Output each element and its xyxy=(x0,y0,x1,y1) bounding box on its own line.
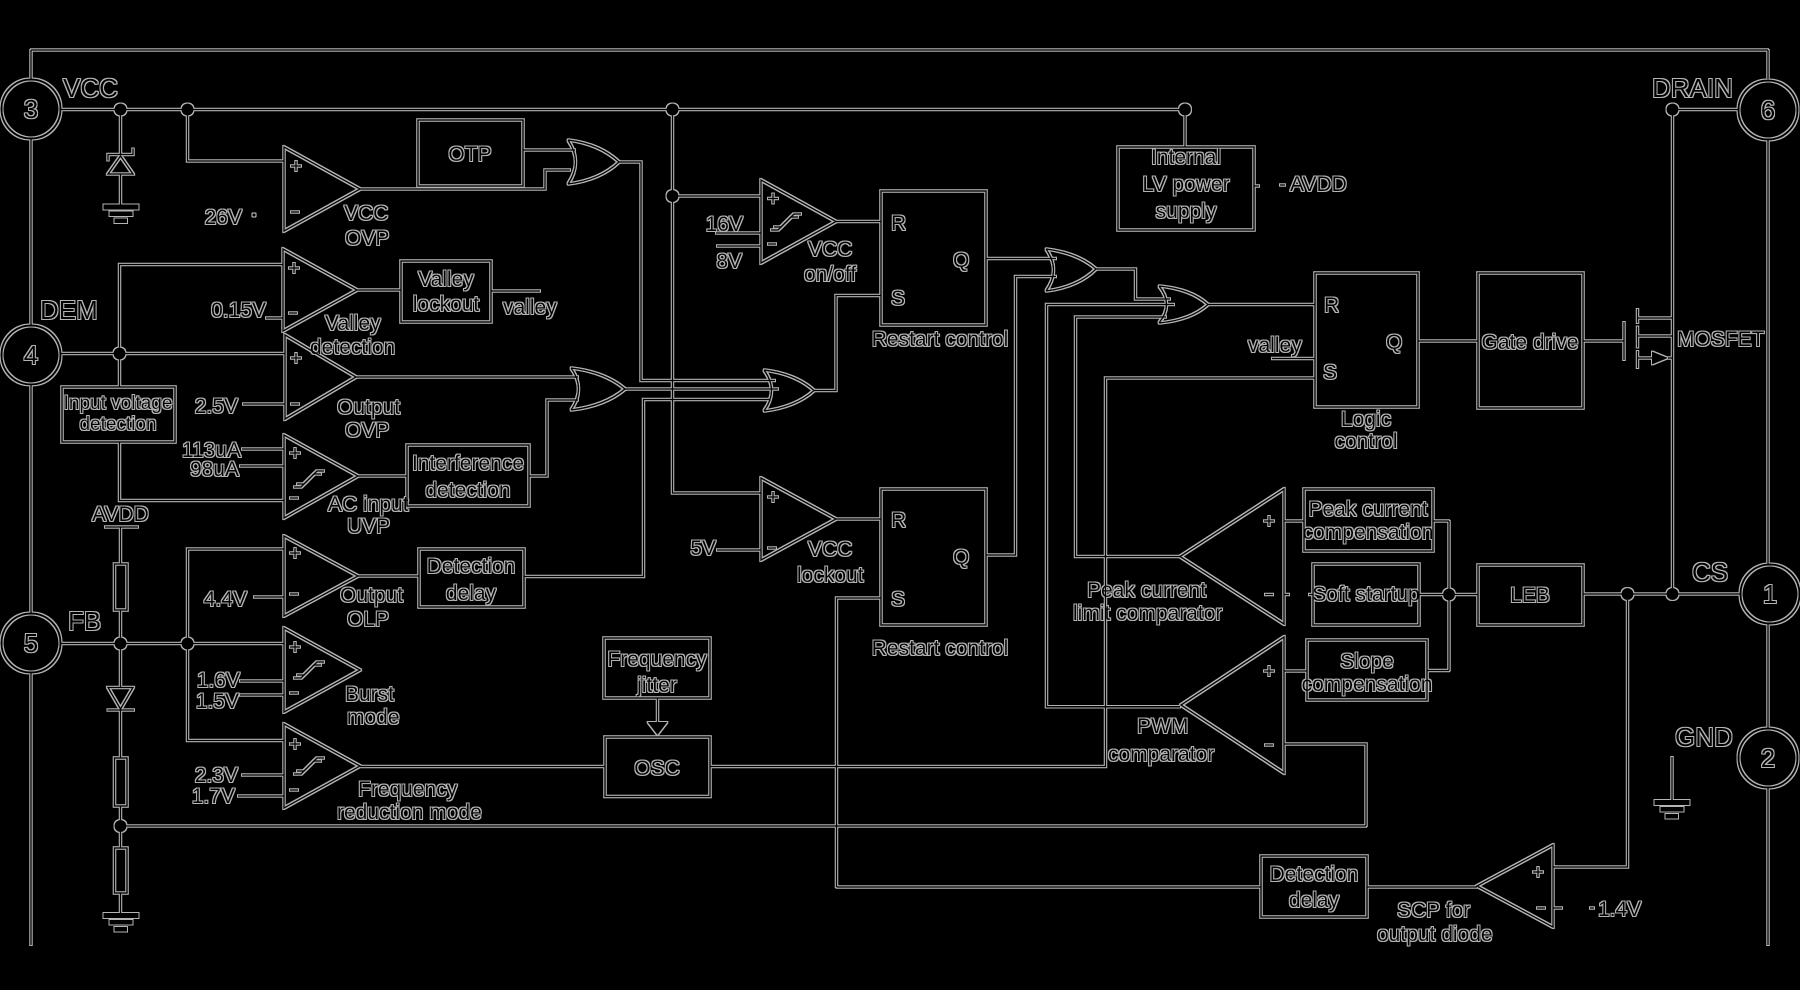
svg-text:DRAIN: DRAIN xyxy=(1652,73,1733,103)
wire Logic Q to Gate drive xyxy=(1418,340,1478,342)
box Peak current compensation xyxy=(1304,489,1433,551)
resistor R2 xyxy=(115,848,128,893)
pin minus U8 xyxy=(768,243,776,245)
box Detection delay xyxy=(419,549,524,607)
node VCC-onoff xyxy=(667,104,679,116)
pin plus U7 xyxy=(290,739,300,749)
svg-text:1.6V: 1.6V xyxy=(197,669,240,692)
ground (GND pin) xyxy=(1671,757,1673,800)
svg-text:compensation: compensation xyxy=(1303,521,1434,544)
svg-text:1.4V: 1.4V xyxy=(1598,898,1641,921)
box LEB xyxy=(1478,565,1583,625)
wire DEM down through input voltage detection xyxy=(119,360,121,388)
svg-text:26V: 26V xyxy=(205,206,242,229)
wire 16V to U8 xyxy=(716,232,761,234)
svg-text:valley: valley xyxy=(503,296,557,319)
power AVDD label xyxy=(1280,184,1285,186)
svg-text:SCP for: SCP for xyxy=(1397,899,1470,922)
pin plus U6 xyxy=(290,642,300,652)
svg-text:jitter: jitter xyxy=(636,674,677,697)
wire FF2 S from detection delay rail xyxy=(837,598,882,887)
wire peak limit out to OR-D xyxy=(1076,317,1181,557)
wire FB down to freq reduction + xyxy=(188,650,285,741)
svg-text:AVDD: AVDD xyxy=(1290,173,1347,196)
op-amp U7 Frequency reduction mode comparator xyxy=(284,724,360,808)
wire compensation vertical xyxy=(1448,521,1450,671)
op-amp U10 Peak current limit comparator xyxy=(1180,489,1284,624)
box Detection delay 2 xyxy=(1261,856,1367,917)
svg-text:detection: detection xyxy=(425,479,510,502)
wire 1.7V to U7 minus xyxy=(238,795,284,797)
wire 2.5V to U3 minus xyxy=(243,403,285,405)
pin 1 (CS) xyxy=(1741,565,1800,624)
pin plus U12 xyxy=(1533,867,1543,877)
svg-text:2.5V: 2.5V xyxy=(195,395,238,418)
node vcc-onoff tap xyxy=(667,190,679,202)
ground (FB divider) xyxy=(104,913,139,918)
hysteresis symbol U4 xyxy=(297,471,324,484)
svg-text:FB: FB xyxy=(68,606,101,636)
node FB-comparators xyxy=(182,638,194,650)
node VCC-zener xyxy=(115,104,127,116)
svg-text:OTP: OTP xyxy=(448,143,491,166)
svg-text:AVDD: AVDD xyxy=(92,503,149,526)
svg-text:8V: 8V xyxy=(716,250,742,273)
svg-text:0.15V: 0.15V xyxy=(211,299,266,322)
box Frequency jitter xyxy=(604,638,710,698)
node VCC-LV xyxy=(1179,104,1191,116)
pin minus U7 xyxy=(290,789,298,791)
svg-text:detection: detection xyxy=(79,414,156,435)
svg-text:Soft startup: Soft startup xyxy=(1312,583,1419,606)
wire 5V to U9 minus xyxy=(717,549,761,551)
svg-text:LEB: LEB xyxy=(1510,584,1550,607)
svg-text:Interference: Interference xyxy=(412,452,524,475)
pin 3 (VCC) xyxy=(2,80,61,139)
svg-text:2.3V: 2.3V xyxy=(195,764,238,787)
resistor R-avdd xyxy=(115,564,128,610)
pin minus U1 xyxy=(291,211,299,213)
wire PWM minus from FB rail xyxy=(1284,744,1366,826)
pin minus U5 xyxy=(290,593,298,595)
wire box to AC UVP minus xyxy=(120,442,285,501)
svg-text:delay: delay xyxy=(1289,889,1340,912)
svg-text:supply: supply xyxy=(1156,200,1217,223)
svg-text:6: 6 xyxy=(1761,95,1775,125)
svg-text:OLP: OLP xyxy=(347,608,389,631)
transistor MOSFET xyxy=(1623,322,1625,360)
op-amp U8 VCC on/off comparator xyxy=(761,180,836,263)
pin plus U3 xyxy=(291,353,301,363)
wire lockout out to FF2 R xyxy=(836,518,881,520)
svg-text:Detection: Detection xyxy=(1270,863,1359,886)
pin plus U2 xyxy=(289,263,299,273)
svg-text:detection: detection xyxy=(310,336,395,359)
box Valley lockout xyxy=(401,261,491,322)
svg-text:lockout: lockout xyxy=(797,564,864,587)
svg-text:1.7V: 1.7V xyxy=(192,785,235,808)
OR gate U-OR-A xyxy=(571,368,625,410)
wire FB divider rail to PWM minus xyxy=(127,825,1367,827)
wire interference out up to OR-A xyxy=(529,400,578,476)
wire 1.5V to U6 minus xyxy=(240,694,284,696)
OR gate U-OR-D xyxy=(1159,286,1208,323)
wire FB rail xyxy=(61,643,285,645)
OR gate U-OR-C xyxy=(1046,249,1096,291)
node drain xyxy=(1667,104,1679,116)
wire CS rail xyxy=(1583,593,1740,595)
svg-text:compensation: compensation xyxy=(1302,673,1433,696)
svg-text:PWM: PWM xyxy=(1137,715,1188,738)
svg-text:5: 5 xyxy=(24,628,38,658)
svg-text:CS: CS xyxy=(1692,557,1728,587)
op-amp U12 SCP comparator xyxy=(1477,845,1553,927)
svg-text:4: 4 xyxy=(24,340,38,370)
wire FF2 Q up to OR-C xyxy=(986,277,1056,556)
pin 4 (DEM) xyxy=(2,326,61,385)
resistor R1 xyxy=(115,758,128,806)
wire LEB left to node xyxy=(1449,594,1478,596)
svg-text:Valley: Valley xyxy=(325,312,381,335)
wire OR-D mid input from PWM net xyxy=(1047,305,1181,707)
svg-text:R: R xyxy=(891,509,906,532)
wire 113uA to U4 plus xyxy=(242,448,284,450)
flip-flop FF1 Restart control xyxy=(881,191,986,325)
box Gate drive xyxy=(1478,273,1583,408)
pin 5 (FB) xyxy=(2,614,61,673)
node FB divider tap xyxy=(115,820,127,832)
wire 2.3V to U7 xyxy=(242,774,284,776)
pin plus U4 xyxy=(290,448,300,458)
wire OR-D out to Logic R xyxy=(1208,304,1315,306)
box Input voltage detection xyxy=(62,387,175,442)
svg-text:DEM: DEM xyxy=(40,295,98,325)
svg-text:Burst: Burst xyxy=(345,683,394,706)
pin plus U5 xyxy=(290,548,300,558)
svg-text:Restart control: Restart control xyxy=(872,328,1009,351)
pin minus U11 xyxy=(1265,744,1273,746)
wire OR-A out to OR-B xyxy=(625,388,778,390)
svg-text:comparator: comparator xyxy=(1108,743,1214,766)
wire FB up to OLP+ xyxy=(188,549,285,638)
svg-text:control: control xyxy=(1334,430,1397,453)
svg-text:S: S xyxy=(891,287,905,310)
wire 4.4V to U5 minus xyxy=(254,596,284,598)
svg-text:1.5V: 1.5V xyxy=(196,690,239,713)
svg-text:Slope: Slope xyxy=(1340,650,1394,673)
wire 0.15V to U2 minus xyxy=(266,317,283,319)
pin minus U6 xyxy=(290,692,298,694)
node CS-mosfet xyxy=(1667,588,1679,600)
svg-text:Q: Q xyxy=(1386,331,1402,354)
svg-text:VCC: VCC xyxy=(63,73,118,103)
wire delay2 to SCP apex xyxy=(1367,886,1477,888)
svg-text:Gate drive: Gate drive xyxy=(1482,331,1579,354)
value label 1.4V xyxy=(1590,907,1594,909)
OR gate U-OR1 xyxy=(568,140,619,184)
svg-text:S: S xyxy=(1323,361,1337,384)
svg-text:reduction mode: reduction mode xyxy=(337,801,482,824)
svg-text:output diode: output diode xyxy=(1377,923,1493,946)
ground (zener) xyxy=(104,205,139,210)
wire SCP plus from CS xyxy=(1553,600,1628,867)
svg-text:R: R xyxy=(1324,294,1339,317)
hysteresis symbol U7 xyxy=(297,758,324,771)
svg-text:Peak current: Peak current xyxy=(1308,498,1427,521)
svg-text:VCC: VCC xyxy=(808,538,852,561)
svg-text:Input voltage: Input voltage xyxy=(64,393,173,414)
op-amp U6 Burst mode comparator xyxy=(284,628,360,712)
wire OVP out to OR1 xyxy=(360,170,570,189)
wire OR-C out to OR-D xyxy=(1096,269,1170,299)
wire drain vertical xyxy=(1672,110,1674,595)
svg-text:Restart control: Restart control xyxy=(872,637,1009,660)
pin plus U1 xyxy=(291,161,301,171)
op-amp U11 PWM comparator xyxy=(1181,637,1284,773)
wire 8V to U8 xyxy=(717,245,761,247)
svg-text:OVP: OVP xyxy=(345,227,389,250)
svg-text:UVP: UVP xyxy=(347,515,390,538)
box Interference detection xyxy=(407,445,529,506)
op-amp U5 Output OLP comparator xyxy=(284,536,358,616)
svg-text:Frequency: Frequency xyxy=(358,778,458,801)
svg-text:Valley: Valley xyxy=(418,268,474,291)
wire VCC rail xyxy=(61,109,1185,111)
svg-text:5V: 5V xyxy=(690,537,716,560)
svg-text:lockout: lockout xyxy=(413,293,480,316)
wire VCC down to on/off + and lockout + xyxy=(673,116,762,494)
op-amp U9 VCC lockout comparator xyxy=(761,478,836,560)
wire right frame xyxy=(1767,50,1769,79)
pin minus U2 xyxy=(289,312,297,314)
wire S rail to detection delay 2 xyxy=(837,886,1262,888)
svg-text:Internal: Internal xyxy=(1151,146,1221,169)
box Internal LV power supply xyxy=(1184,116,1186,148)
svg-text:GND: GND xyxy=(1675,722,1733,752)
wire DEM rail xyxy=(61,353,286,355)
box OTP xyxy=(418,120,523,186)
box Soft startup xyxy=(1313,564,1419,625)
svg-text:Q: Q xyxy=(953,546,969,569)
wire OSC out / PWM net vertical xyxy=(710,378,1315,767)
wire valley lockout out xyxy=(491,290,540,292)
svg-text:MOSFET: MOSFET xyxy=(1677,328,1765,351)
wire OR1 out down to OR-B xyxy=(619,162,775,381)
svg-text:OVP: OVP xyxy=(345,419,389,442)
svg-text:Logic: Logic xyxy=(1341,408,1391,431)
op-amp U3 Output OVP comparator xyxy=(285,335,356,419)
pin plus U11 xyxy=(1264,666,1274,676)
svg-text:Output: Output xyxy=(340,584,403,607)
svg-text:delay: delay xyxy=(446,582,497,605)
svg-text:R: R xyxy=(891,212,906,235)
svg-text:1: 1 xyxy=(1763,579,1777,609)
hysteresis symbol U6 xyxy=(297,662,324,675)
wire 1.6V to U6 xyxy=(240,680,284,682)
wire SCP minus stub xyxy=(1553,907,1562,909)
wire on/off out to FF1 R xyxy=(836,221,881,223)
pin 6 (DRAIN) xyxy=(1739,81,1798,140)
flip-flop FF2 Restart control xyxy=(881,489,986,625)
pin minus U10 xyxy=(1265,594,1273,596)
pin minus U4 xyxy=(290,497,298,499)
zener diode D1 xyxy=(108,149,133,161)
svg-text:2: 2 xyxy=(1761,743,1775,773)
svg-text:mode: mode xyxy=(347,706,400,729)
op-amp U4 AC input UVP comparator xyxy=(284,435,358,518)
wire OTP to OR1 xyxy=(523,149,575,151)
svg-text:4.4V: 4.4V xyxy=(204,588,247,611)
wire freq reduction out to OSC xyxy=(360,766,605,768)
svg-text:Q: Q xyxy=(953,249,969,272)
svg-text:VCC: VCC xyxy=(808,238,852,261)
svg-text:Frequency: Frequency xyxy=(607,648,707,671)
diode D-fb xyxy=(120,650,122,688)
wire output OVP out to OR-A xyxy=(356,376,578,378)
svg-text:Detection: Detection xyxy=(427,555,516,578)
node FB-divider xyxy=(115,638,127,650)
svg-text:VCC: VCC xyxy=(344,202,388,225)
wire VCC to OVP+ xyxy=(188,116,285,162)
svg-text:S: S xyxy=(891,588,905,611)
hysteresis symbol U8 xyxy=(774,214,801,227)
wire 98uA to U4 xyxy=(240,465,284,467)
pin minus U12 xyxy=(1537,907,1545,909)
wire AC UVP out xyxy=(358,475,407,477)
svg-text:3: 3 xyxy=(24,94,38,124)
pin plus U8 xyxy=(768,194,778,204)
wire OLP out xyxy=(358,575,419,577)
svg-text:on/off: on/off xyxy=(804,263,856,286)
wire DEM up to valley det + xyxy=(120,265,284,348)
svg-text:LV power: LV power xyxy=(1142,173,1229,196)
box OSC xyxy=(605,737,710,797)
wire jitter arrow to OSC xyxy=(657,698,659,722)
op-amp U1 VCC OVP comparator xyxy=(284,147,360,231)
svg-text:limit comparator: limit comparator xyxy=(1073,602,1222,625)
wire left frame xyxy=(30,50,32,79)
op-amp U2 Valley detection comparator xyxy=(283,249,357,331)
svg-text:98uA: 98uA xyxy=(190,458,239,481)
pin minus U3 xyxy=(291,403,299,405)
wire gate drive to MOSFET gate xyxy=(1583,340,1624,342)
wire OR-B out up to FF1 S xyxy=(814,296,881,391)
svg-text:OSC: OSC xyxy=(634,757,680,780)
node VCC-ovp xyxy=(182,104,194,116)
pin 2 (GND) xyxy=(1739,729,1798,788)
wire FF1 Q to OR-C xyxy=(986,258,1056,260)
svg-text:Peak current: Peak current xyxy=(1087,579,1206,602)
wire top frame xyxy=(31,49,1768,51)
node soft-start/LEB xyxy=(1443,589,1455,601)
wire valley det out xyxy=(357,289,401,291)
pin minus U9 xyxy=(768,547,776,549)
box Slope compensation xyxy=(1307,640,1427,700)
svg-text:AC input: AC input xyxy=(328,493,409,516)
wire detection delay up to OR-B xyxy=(524,400,770,577)
node CS-scp xyxy=(1622,588,1634,600)
svg-text:valley: valley xyxy=(1248,334,1302,357)
wire stub U10 minus xyxy=(1284,594,1289,596)
wire zener branch xyxy=(120,116,122,155)
pin plus U9 xyxy=(768,492,778,502)
OR gate U-OR-B xyxy=(764,370,814,411)
pin plus U10 xyxy=(1264,516,1274,526)
node DEM xyxy=(114,348,126,360)
flip-flop FF3 Logic control xyxy=(1315,273,1418,407)
svg-text:Output: Output xyxy=(337,396,400,419)
